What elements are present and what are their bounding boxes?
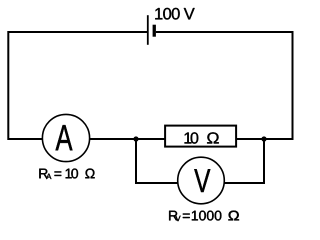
wire: voltmeter branch (down from left junction, across the bottom, up to right junction) (136, 139, 264, 183)
junction node (right, resistor/voltmeter/source) (261, 136, 266, 141)
label: 10 ohm (inside resistor box) (185, 132, 219, 143)
label: RA = 10 ohm (ammeter resistance) (39, 169, 94, 179)
ammeter A (circle) (42, 114, 89, 161)
battery: long thin positive plate (147, 15, 149, 45)
battery: short thick negative plate (153, 25, 156, 37)
ammeter letter A (56, 125, 73, 150)
label: RV = 1000 ohm (voltmeter resistance) (169, 211, 221, 221)
junction node (left, ammeter/resistor/voltmeter) (133, 136, 138, 141)
wire: from battery negative plate along top to top-left corner, down the left side, to ammeter branch (8, 32, 148, 139)
wire: resistor branch between left junction and right junction (136, 138, 264, 140)
voltmeter V (circle) (178, 157, 225, 204)
resistor 10 ohm (rectangle) (165, 126, 236, 147)
wire: from battery positive plate along top to top-right corner, down the right side, to right junction (156, 32, 293, 139)
label: 100 V (battery voltage) (155, 8, 194, 20)
voltmeter letter V (194, 169, 210, 192)
